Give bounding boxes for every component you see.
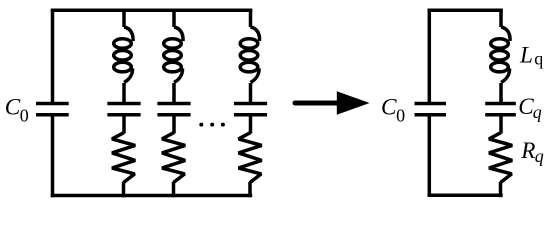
capacitor Cq: [485, 104, 516, 115]
wire: branch 1 cap-resistor lead: [122, 115, 126, 134]
wire: C0 bottom lead (left edge): [51, 116, 55, 197]
wire: C0 top lead (right network): [428, 9, 432, 103]
wire: Lq top lead: [499, 9, 503, 28]
svg-text:C: C: [381, 95, 397, 121]
wire: branch 2 top lead: [172, 9, 176, 28]
wire: branch 1 top lead: [122, 9, 126, 28]
resistor Rq: [489, 133, 512, 183]
wire: C0 top lead (left edge): [51, 9, 55, 103]
resistor Rn: [239, 133, 262, 183]
wire: left network top rail: [51, 9, 252, 13]
wire: branch 1 middle lead: [122, 83, 126, 102]
wire: branch n top lead (right edge): [249, 9, 253, 28]
wire: branch 2 bottom lead: [172, 182, 176, 197]
wire: C0 bottom lead (right network): [428, 116, 432, 196]
wire: right network bottom rail: [428, 193, 503, 197]
capacitor C0 (right network): [415, 104, 447, 115]
svg-text:R: R: [520, 138, 535, 164]
capacitor C0 (left network): [36, 104, 69, 115]
arrow: equivalence: [295, 91, 370, 115]
inductor Ln: [240, 27, 259, 83]
wire: right network top rail: [428, 9, 503, 13]
inductor Lq: [491, 27, 510, 83]
wire: Rq bottom lead: [499, 182, 503, 197]
label Cq: [518, 94, 542, 122]
svg-text:0: 0: [20, 105, 29, 125]
svg-text:0: 0: [396, 105, 405, 125]
wire: branch n middle lead: [249, 83, 253, 102]
svg-text:q: q: [534, 48, 543, 68]
label C0 (right): [381, 95, 405, 126]
svg-text:q: q: [535, 146, 544, 166]
wire: branch 2 middle lead: [172, 83, 176, 102]
capacitor C1: [107, 104, 140, 115]
label C0 (left): [5, 95, 29, 126]
wire: Lq-Cq lead: [499, 83, 503, 102]
svg-text:q: q: [533, 102, 542, 122]
inductor L1: [114, 27, 133, 83]
capacitor Cn: [234, 104, 267, 115]
svg-text:C: C: [5, 95, 21, 121]
label Lq: [519, 42, 543, 68]
wire: left network bottom rail: [51, 194, 252, 198]
capacitor C2: [157, 104, 190, 115]
ellipsis: additional branches: [199, 123, 225, 127]
resistor R2: [162, 133, 185, 183]
wire: Cq-Rq lead: [499, 115, 503, 134]
wire: branch 2 cap-resistor lead: [172, 115, 176, 134]
inductor L2: [164, 27, 183, 83]
wire: branch n bottom lead: [248, 182, 252, 197]
label Rq: [520, 138, 544, 166]
wire: branch n cap-resistor lead: [249, 115, 253, 134]
resistor R1: [112, 133, 135, 183]
wire: branch 1 bottom lead: [122, 182, 126, 197]
svg-text:L: L: [519, 42, 533, 68]
